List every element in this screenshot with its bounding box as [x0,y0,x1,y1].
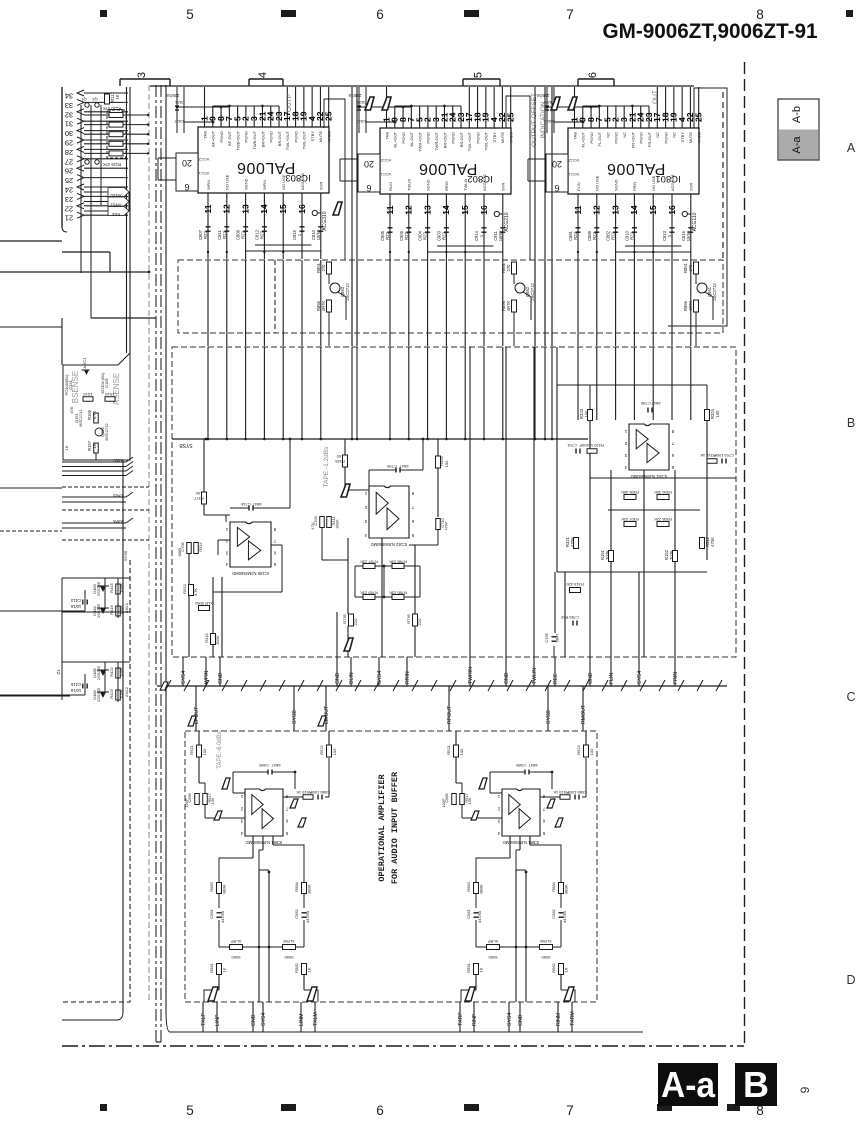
svg-text:21: 21 [65,214,73,223]
svg-text:C582: C582 [551,908,556,918]
svg-text:1SS355: 1SS355 [96,581,101,596]
svg-text:31: 31 [65,120,73,129]
svg-text:303K: 303K [215,635,220,645]
svg-text:R305 30K: R305 30K [621,490,639,495]
svg-text:ANL2: ANL2 [124,686,129,697]
svg-text:A: A [847,141,856,155]
svg-text:WFIN: WFIN [206,180,211,190]
svg-text:C582: C582 [294,908,299,918]
svg-text:R521: R521 [189,744,194,754]
svg-text:TWL-OUT: TWL-OUT [484,131,489,150]
svg-text:PGND: PGND [451,132,456,144]
svg-text:TWL-OUT: TWL-OUT [302,130,307,149]
svg-text:RPOUT: RPOUT [447,705,453,724]
svg-text:C589: C589 [515,763,525,768]
svg-text:6847: 6847 [651,401,661,406]
svg-text:R735: R735 [342,613,347,623]
svg-text:883K: 883K [564,884,569,894]
svg-text:470K: 470K [570,537,575,547]
svg-text:14: 14 [259,204,269,214]
svg-text:GND: GND [518,1014,524,1026]
svg-text:BL+OUT: BL+OUT [393,131,398,147]
svg-text:RINM: RINM [556,1013,562,1026]
svg-text:R522: R522 [319,744,324,754]
svg-text:VCC2: VCC2 [568,158,579,163]
svg-text:TXLM: TXLM [313,1012,319,1026]
svg-text:Z1: Z1 [56,669,61,675]
svg-text:NO USE: NO USE [651,175,656,191]
svg-text:PGND: PGND [614,132,619,144]
svg-text:R581: R581 [209,962,214,972]
svg-text:R119 47K: R119 47K [103,162,122,167]
svg-text:REE: REE [111,212,120,217]
svg-text:SVR: SVR [501,183,506,191]
svg-text:INDICATION: INDICATION [540,101,547,138]
svg-text:5050: 5050 [231,955,241,960]
svg-text:D: D [846,973,855,987]
svg-text:D155: D155 [104,377,109,387]
svg-text:28: 28 [65,148,73,157]
svg-text:6: 6 [184,182,189,192]
svg-text:1K: 1K [564,967,569,972]
svg-text:WFIN: WFIN [262,180,267,190]
svg-text:6847: 6847 [555,633,560,643]
svg-text:18/50: 18/50 [498,230,503,241]
svg-text:BR+OUT: BR+OUT [260,130,265,147]
svg-text:R787 23K: R787 23K [360,560,378,565]
svg-text:XLRP: XLRP [487,939,498,944]
svg-text:25: 25 [506,112,516,122]
svg-text:12: 12 [404,205,414,215]
svg-text:IC182 NJM4560MD: IC182 NJM4560MD [371,542,408,547]
svg-text:R22: R22 [423,231,428,239]
svg-text:FLIN: FLIN [609,673,615,684]
svg-text:B: B [743,1064,769,1105]
svg-text:C586 100P: C586 100P [567,790,587,795]
svg-text:R22: R22 [573,231,578,239]
svg-text:PGND: PGND [426,132,431,144]
svg-text:TAB: TAB [202,131,207,139]
svg-text:TWRIN: TWRIN [468,667,474,684]
svg-text:10/16: 10/16 [70,688,81,693]
svg-text:5: 5 [186,7,194,22]
svg-text:14: 14 [441,205,451,215]
svg-text:5050: 5050 [284,955,294,960]
svg-text:883K: 883K [307,884,312,894]
svg-text:PGND: PGND [244,131,249,143]
svg-text:25: 25 [324,111,334,121]
svg-text:R22: R22 [404,231,409,239]
svg-text:C798: C798 [640,401,650,406]
svg-text:1K: 1K [479,967,484,972]
svg-text:13: 13 [422,205,432,215]
svg-text:5050: 5050 [541,955,551,960]
svg-text:R786 23K: R786 23K [389,591,407,596]
svg-text:ANL1: ANL1 [124,602,129,613]
svg-text:SYSB: SYSB [179,442,193,448]
svg-text:MUTE: MUTE [318,131,323,143]
svg-text:IC185 NJM4560MD: IC185 NJM4560MD [232,571,269,576]
svg-text:SYS4: SYS4 [261,1013,267,1026]
svg-text:GND: GND [588,672,594,684]
svg-text:BSC2712: BSC2712 [104,423,109,441]
svg-text:R736: R736 [406,613,411,623]
svg-text:FR-OUT: FR-OUT [647,131,652,147]
svg-text:R22: R22 [441,231,446,239]
svg-text:BLIN: BLIN [349,672,355,684]
svg-text:5: 5 [186,1103,194,1118]
svg-text:A0PA: A0PA [113,519,123,524]
svg-text:BSC2712: BSC2712 [78,409,83,427]
svg-text:C796: C796 [544,632,549,642]
svg-text:C799: C799 [386,464,396,469]
svg-text:4: 4 [257,72,269,78]
svg-text:6847: 6847 [399,464,409,469]
svg-text:34: 34 [65,92,73,101]
svg-text:XLR 5050: XLR 5050 [194,601,213,606]
svg-text:SYSB: SYSB [292,710,298,724]
svg-text:15: 15 [648,205,658,215]
svg-text:TWR-OUT: TWR-OUT [434,131,439,150]
svg-text:270: 270 [506,264,511,272]
svg-text:R306 30K: R306 30K [654,490,672,495]
svg-text:100: 100 [584,410,589,418]
svg-text:R320 1K: R320 1K [588,443,604,448]
svg-text:5050: 5050 [488,955,498,960]
svg-text:RRIN: RRIN [405,671,411,684]
svg-text:6: 6 [554,183,559,193]
svg-text:R521: R521 [446,744,451,754]
svg-text:1K: 1K [92,443,97,448]
svg-text:C413: C413 [70,598,81,603]
svg-text:100: 100 [202,748,207,755]
svg-text:3: 3 [136,72,148,78]
svg-text:C581: C581 [209,908,214,918]
svg-text:470P: 470P [444,521,449,530]
svg-text:15: 15 [278,204,288,214]
svg-text:R582: R582 [551,962,556,972]
svg-text:1SS355: 1SS355 [96,687,101,702]
svg-text:PGND: PGND [219,131,224,143]
svg-text:25: 25 [65,176,73,185]
svg-text:IC581 NJM4560MD: IC581 NJM4560MD [503,840,540,845]
svg-text:47U: 47U [310,522,315,529]
svg-text:MUTE: MUTE [500,132,505,144]
svg-text:6: 6 [366,183,371,193]
svg-text:447/50: 447/50 [220,910,225,923]
svg-text:18/50: 18/50 [316,229,321,240]
svg-text:1K: 1K [307,967,312,972]
svg-text:R415: R415 [109,582,114,592]
svg-text:NC: NC [672,132,677,138]
svg-text:R583: R583 [466,881,471,891]
svg-text:PGND: PGND [639,132,644,144]
svg-text:PGND: PGND [401,132,406,144]
svg-text:447/50: 447/50 [305,910,310,923]
svg-text:GND: GND [251,1014,257,1026]
svg-text:20: 20 [364,159,374,169]
svg-text:7: 7 [566,1103,574,1118]
svg-text:OPERATIONAL AMPLIFIER: OPERATIONAL AMPLIFIER [377,774,387,882]
svg-text:R313: R313 [182,583,187,593]
svg-text:R22: R22 [592,231,597,239]
svg-text:MUTE: MUTE [688,132,693,144]
svg-text:C581: C581 [466,908,471,918]
svg-text:R788 23K: R788 23K [389,560,407,565]
svg-text:IC581 NJM4560MD: IC581 NJM4560MD [246,840,283,845]
svg-text:5: 5 [473,72,485,78]
svg-text:SYS4: SYS4 [181,671,187,684]
svg-text:100: 100 [332,748,337,755]
svg-text:BR-OUT: BR-OUT [459,131,464,147]
svg-text:SYS4: SYS4 [637,671,643,684]
svg-text:SYS6: SYS6 [123,550,128,561]
svg-text:PGND: PGND [589,132,594,144]
svg-text:C789 R22: C789 R22 [560,615,579,620]
svg-text:100K: 100K [119,605,124,615]
svg-text:14: 14 [629,205,639,215]
svg-text:TWL+OUT: TWL+OUT [285,130,290,150]
svg-text:12: 12 [222,204,232,214]
svg-text:1SS355: 1SS355 [96,603,101,618]
svg-text:BF+OUT: BF+OUT [211,130,216,146]
svg-text:FR+OUT: FR+OUT [630,131,635,148]
svg-text:A-a: A-a [661,1064,716,1105]
svg-text:22: 22 [65,204,73,213]
svg-text:LP63: LP63 [113,493,123,498]
svg-text:ACGND1: ACGND1 [670,174,675,191]
svg-text:R22: R22 [259,230,264,238]
svg-text:SYSB: SYSB [546,710,552,724]
svg-text:4R7K: 4R7K [321,301,326,312]
svg-text:13: 13 [610,205,620,215]
svg-text:SGND: SGND [613,179,618,191]
svg-text:H-SW: H-SW [509,132,514,143]
svg-text:LINP: LINP [215,1014,221,1026]
svg-text:6847: 6847 [252,502,262,507]
svg-text:100: 100 [589,748,594,755]
svg-text:11: 11 [203,204,213,213]
svg-text:7: 7 [566,7,574,22]
svg-text:R519 1K: R519 1K [553,790,569,795]
svg-text:FL-OUT: FL-OUT [597,131,602,146]
svg-text:R22: R22 [611,231,616,239]
svg-text:GND: GND [218,672,224,684]
svg-text:ACGND2: ACGND2 [482,174,487,191]
svg-text:15K: 15K [210,797,215,804]
svg-text:R582: R582 [294,962,299,972]
svg-text:C824: C824 [174,100,184,105]
svg-text:47K: 47K [69,406,74,413]
svg-text:1S10: 1S10 [83,392,93,397]
svg-text:FRIN: FRIN [632,182,637,191]
svg-text:100P: 100P [184,798,189,807]
svg-text:TWB+OUT: TWB+OUT [235,130,240,150]
svg-text:OUTP: OUTP [286,94,293,112]
svg-text:C: C [846,690,855,704]
svg-text:GND: GND [335,672,341,684]
svg-text:PGND: PGND [663,132,668,144]
svg-text:24: 24 [65,186,73,195]
svg-text:TWLIN: TWLIN [463,178,468,191]
svg-text:C718: C718 [240,502,250,507]
svg-text:XLRP: XLRP [230,939,241,944]
svg-text:1SS355: 1SS355 [96,665,101,680]
svg-text:20: 20 [552,159,562,169]
svg-text:R314: R314 [198,542,203,552]
svg-text:100P: 100P [579,443,589,448]
svg-text:SYS4: SYS4 [377,671,383,684]
svg-text:32: 32 [65,110,73,119]
svg-text:RMOUT: RMOUT [581,704,587,724]
svg-text:SVR: SVR [689,183,694,191]
svg-text:447/50: 447/50 [477,910,482,923]
svg-text:6: 6 [376,7,384,22]
svg-text:NC: NC [622,132,627,138]
svg-text:100P: 100P [441,798,446,807]
svg-text:TWLIN: TWLIN [407,178,412,191]
svg-text:FOR AUDIO INPUT BUFFER: FOR AUDIO INPUT BUFFER [390,771,400,884]
svg-text:STBY: STBY [492,132,497,143]
svg-text:R789 23K: R789 23K [360,591,378,596]
svg-text:26: 26 [65,167,73,176]
svg-text:C415: C415 [70,682,81,687]
svg-text:33: 33 [65,101,73,110]
svg-text:27: 27 [65,157,73,166]
svg-text:100: 100 [715,410,720,418]
svg-text:ACG110: ACG110 [692,212,698,231]
svg-text:TWR+OUT: TWR+OUT [417,131,422,151]
svg-text:R307 22K: R307 22K [621,517,639,522]
svg-text:TXRP: TXRP [458,1012,464,1026]
svg-text:XLRW: XLRW [283,939,295,944]
svg-text:100: 100 [336,454,343,459]
svg-text:TAPE:-6.0dBs: TAPE:-6.0dBs [217,731,223,769]
svg-text:ACG210: ACG210 [504,212,510,231]
svg-text:TAPE:-1.2dBs: TAPE:-1.2dBs [323,446,330,487]
svg-text:NO USE: NO USE [281,174,286,190]
svg-text:R584: R584 [551,881,556,891]
svg-text:TAB: TAB [572,132,577,140]
svg-text:220: 220 [417,618,422,625]
svg-text:R22: R22 [241,230,246,238]
svg-text:18/50: 18/50 [686,230,691,241]
svg-text:100: 100 [195,491,202,496]
svg-text:R519 1K: R519 1K [296,790,312,795]
svg-text:15K: 15K [467,797,472,804]
svg-text:470K: 470K [710,537,715,547]
svg-text:1K: 1K [222,967,227,972]
svg-text:IC803: IC803 [285,172,310,183]
svg-text:4R7K: 4R7K [506,301,511,312]
svg-text:TXRM: TXRM [570,1011,576,1026]
svg-text:SGND: SGND [425,179,430,191]
svg-text:STBY: STBY [680,132,685,143]
svg-text:1K: 1K [64,445,69,450]
svg-text:100K: 100K [119,667,124,677]
svg-text:A-b: A-b [791,106,803,123]
svg-text:IC802: IC802 [467,173,492,184]
svg-text:XLRW: XLRW [540,939,552,944]
svg-text:R423: R423 [109,688,114,698]
svg-text:SYS4: SYS4 [507,1013,513,1026]
svg-text:PGND: PGND [269,131,274,143]
svg-text:R308 22K: R308 22K [654,517,672,522]
svg-text:6: 6 [376,1103,384,1118]
svg-text:NC: NC [605,132,610,138]
svg-text:100K: 100K [119,689,124,699]
svg-text:FRIN: FRIN [673,672,679,684]
svg-text:100: 100 [444,460,449,467]
svg-text:16: 16 [479,205,489,215]
svg-text:ACG310: ACG310 [322,211,328,230]
svg-text:REE: REE [553,673,559,684]
svg-text:883K: 883K [222,884,227,894]
svg-text:12: 12 [592,205,602,215]
svg-text:29: 29 [65,139,73,148]
svg-text:4.7K: 4.7K [193,588,198,597]
svg-text:BR-OUT: BR-OUT [277,130,282,146]
svg-text:RRIN: RRIN [444,181,449,191]
svg-text:PGND: PGND [293,131,298,143]
svg-text:LINM: LINM [299,1014,305,1026]
svg-text:OUT: OUT [652,90,659,104]
svg-text:R319 220: R319 220 [566,582,584,587]
svg-text:NO USE: NO USE [595,175,600,191]
svg-text:RLIN: RLIN [388,182,393,191]
svg-text:VCC1: VCC1 [198,171,209,176]
svg-text:STBY: STBY [310,131,315,142]
svg-text:R318 1K: R318 1K [700,453,716,458]
svg-text:R22: R22 [629,231,634,239]
svg-text:H-SW: H-SW [697,132,702,143]
svg-text:R583: R583 [209,881,214,891]
svg-text:BF-OUT: BF-OUT [227,130,232,145]
svg-text:4.7K: 4.7K [92,410,97,419]
svg-text:6847: 6847 [528,763,538,768]
svg-text:AGC1: AGC1 [82,357,87,369]
svg-text:C701: C701 [566,443,576,448]
svg-text:C586 100P: C586 100P [310,790,330,795]
svg-text:IC801: IC801 [655,173,680,184]
svg-text:303K: 303K [335,519,340,528]
svg-text:30: 30 [65,129,73,138]
svg-text:VCC1: VCC1 [568,172,579,177]
svg-text:R22: R22 [222,230,227,238]
svg-text:C702 100P: C702 100P [714,453,734,458]
svg-text:A30V: A30V [113,458,123,463]
svg-text:C827: C827 [173,119,183,124]
svg-text:10/16: 10/16 [70,604,81,609]
svg-text:VCC2: VCC2 [380,158,391,163]
svg-text:NC: NC [655,132,660,138]
svg-text:GM-9006ZT,9006ZT-91: GM-9006ZT,9006ZT-91 [603,19,818,43]
svg-text:A-a: A-a [791,136,803,154]
svg-text:100: 100 [459,748,464,755]
svg-text:16: 16 [667,205,677,215]
svg-text:25: 25 [694,112,704,122]
svg-text:WFIN: WFIN [204,670,210,684]
svg-text:TWL+OUT: TWL+OUT [467,131,472,151]
svg-text:11: 11 [385,205,395,214]
svg-text:SVR: SVR [319,182,324,190]
svg-text:VCC1: VCC1 [380,172,391,177]
svg-text:20: 20 [182,158,192,168]
svg-text:FL+OUT: FL+OUT [581,131,586,147]
svg-text:6865: 6865 [177,548,182,557]
svg-text:RINP: RINP [472,1013,478,1026]
svg-text:883K: 883K [479,884,484,894]
